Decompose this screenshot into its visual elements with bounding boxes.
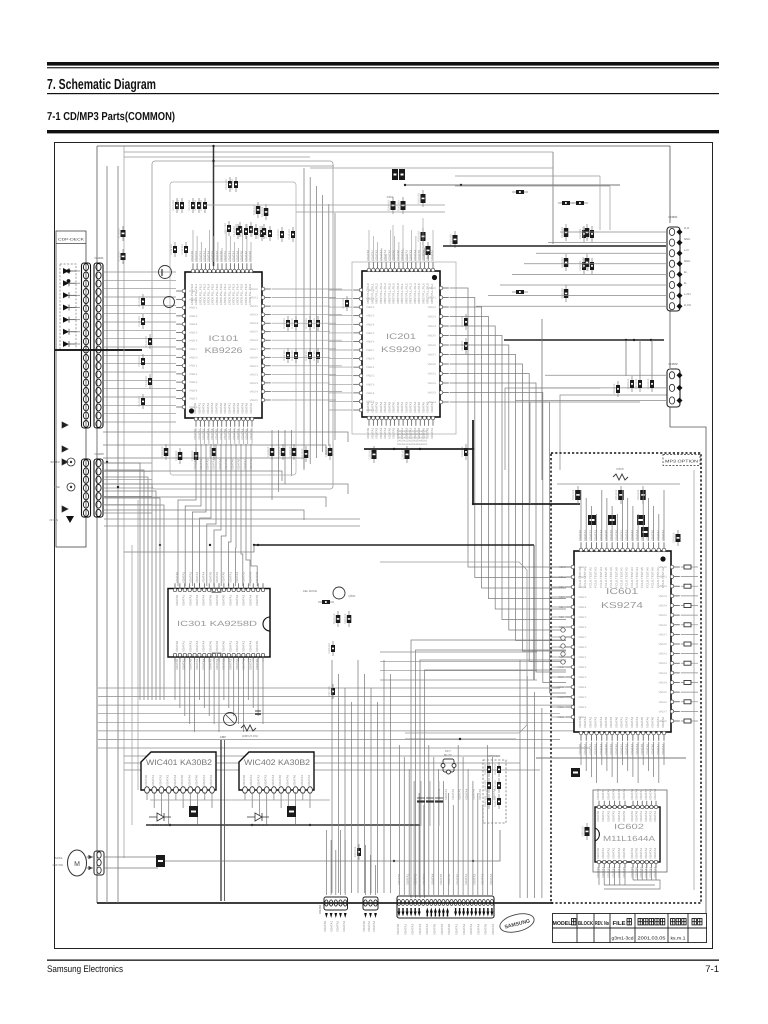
wire mid net 0 (380, 651, 537, 653)
wire bus inter-section verticals (272, 168, 335, 500)
wire IC201 top 7 (394, 236, 396, 261)
svg-text:MP3 KEY: MP3 KEY (487, 754, 500, 758)
resistor R115 (291, 348, 298, 363)
svg-text:R114103: R114103 (283, 350, 286, 361)
svg-text:R613103: R613103 (582, 257, 585, 268)
svg-text:KS9274: KS9274 (601, 600, 643, 610)
capacitor C650 (572, 486, 581, 504)
svg-text:XDATA0: XDATA0 (175, 571, 179, 583)
svg-text:VREF2: VREF2 (189, 373, 198, 376)
svg-text:C122103: C122103 (145, 336, 148, 347)
svg-text:XDATA4: XDATA4 (271, 774, 275, 786)
memory IC602 M11L1644A body (595, 807, 660, 862)
wire IC201 top 16 (432, 230, 434, 261)
svg-text:X201: X201 (386, 195, 393, 199)
wire CN602 pin 1 (545, 374, 667, 376)
svg-text:CN602: CN602 (668, 362, 678, 366)
wire IC101 top pin 11 (233, 242, 235, 262)
svg-text:VREF4: VREF4 (250, 322, 259, 325)
capacitor C330 (616, 581, 624, 597)
svg-text:XDATA0: XDATA0 (175, 640, 179, 652)
svg-text:XDATA4: XDATA4 (617, 866, 621, 878)
wire power rail into MP3 (473, 503, 580, 505)
svg-text:XDATA5: XDATA5 (208, 640, 212, 652)
svg-text:VREF4: VREF4 (189, 389, 198, 392)
wire bottom power bus (97, 902, 553, 904)
capacitor C107 (224, 221, 231, 236)
svg-text:XDATA3: XDATA3 (195, 594, 199, 606)
svg-text:XDATA0: XDATA0 (614, 743, 618, 755)
svg-text:C100103: C100103 (172, 200, 175, 211)
svg-text:C230103: C230103 (369, 449, 372, 460)
wire deck pin 1 (76, 270, 80, 272)
svg-text:XDATA2: XDATA2 (606, 788, 610, 800)
svg-text:VREF4: VREF4 (578, 686, 587, 689)
pins IC601 top (579, 542, 666, 552)
svg-text:VREF5: VREF5 (428, 335, 437, 338)
wire IC602 gnd (604, 884, 655, 886)
wire IC201 top 4 (381, 248, 383, 261)
wire bus left crossing (103, 432, 348, 520)
svg-text:XDATA1: XDATA1 (464, 873, 468, 885)
wire IC601 left pin 1 (551, 566, 564, 568)
capacitor C132 (191, 448, 199, 464)
wire bus center risers (332, 660, 542, 898)
wire lower net 1 (124, 762, 520, 764)
svg-text:C124103: C124103 (145, 376, 148, 387)
capacitor C210 (342, 296, 349, 311)
capacitor C231 (402, 446, 410, 463)
svg-text:XDATA5: XDATA5 (255, 640, 259, 652)
svg-text:F.CLK.TEST.A0: F.CLK.TEST.A0 (614, 567, 618, 588)
capacitor C137 (301, 446, 309, 462)
capacitor C100 (172, 198, 179, 213)
svg-text:XDATA0: XDATA0 (596, 866, 600, 878)
pin labels IC601 bottom inside (578, 716, 665, 728)
svg-text:VREF3: VREF3 (428, 316, 437, 319)
svg-text:LINE: LINE (54, 485, 60, 489)
resistor R611 (561, 254, 569, 271)
svg-text:C222103: C222103 (461, 446, 464, 457)
wire WIC net (150, 799, 330, 801)
svg-text:VREF5: VREF5 (578, 696, 587, 699)
svg-text:XDATA2: XDATA2 (606, 810, 610, 822)
svg-text:Samsung Electronics: Samsung Electronics (47, 964, 123, 975)
svg-text:L-O: L-O (684, 248, 689, 252)
svg-text:XDATA6: XDATA6 (215, 658, 219, 670)
svg-text:R-O: R-O (684, 226, 690, 230)
capacitor C630 (627, 376, 634, 392)
svg-text:XDATA4: XDATA4 (653, 866, 657, 878)
jumper block J63 (641, 527, 649, 537)
op-amp WIC402 body (239, 752, 314, 790)
svg-text:XDATA4: XDATA4 (617, 810, 621, 822)
svg-text:VREF5: VREF5 (659, 691, 668, 694)
pins IC201 bottom (367, 416, 435, 426)
svg-text:XDATA1: XDATA1 (430, 249, 434, 261)
svg-text:XDATA3: XDATA3 (612, 847, 616, 859)
svg-text:XDATA3: XDATA3 (166, 774, 170, 786)
capacitor C124 (145, 374, 152, 389)
svg-text:XDATA3: XDATA3 (594, 716, 598, 728)
wire IC201 top 2 (372, 236, 374, 261)
test point P402 (67, 483, 75, 491)
wire xtal (402, 225, 404, 260)
svg-text:XDATA1: XDATA1 (639, 810, 643, 822)
svg-text:XDATA5: XDATA5 (439, 873, 443, 885)
wire rail B (254, 544, 534, 546)
svg-text:C307103: C307103 (328, 686, 331, 697)
pins WIC402 (243, 787, 313, 794)
wire inner frame right lower (670, 407, 706, 913)
transistor Q102 (164, 297, 175, 308)
capacitor C633 (613, 381, 620, 397)
svg-text:XDATA4: XDATA4 (617, 788, 621, 800)
svg-text:XDATA6: XDATA6 (609, 529, 613, 541)
svg-text:VREF3: VREF3 (428, 392, 437, 395)
svg-text:VREF6: VREF6 (428, 344, 437, 347)
capacitor C106 (231, 177, 238, 192)
labels CN302 nets (397, 873, 493, 885)
wire IC101 right pin 6 (272, 331, 330, 333)
capacitor C114 (170, 242, 177, 257)
svg-text:XDATA6: XDATA6 (491, 923, 495, 935)
pin labels IC602 top inside (596, 810, 657, 822)
svg-text:C114103: C114103 (170, 244, 173, 255)
title cell FILE myeong (627, 919, 631, 925)
capacitor C652 (637, 486, 646, 504)
svg-text:XDATA1: XDATA1 (367, 920, 371, 932)
diode D402 1N4148 (247, 813, 269, 821)
svg-text:VREF7: VREF7 (250, 348, 259, 351)
svg-text:C112103: C112103 (277, 229, 280, 240)
capacitor C651 (615, 486, 624, 504)
svg-text:C115103: C115103 (181, 244, 184, 255)
wire IC101 bottom pin 13 (247, 428, 249, 444)
svg-text:VREF0: VREF0 (428, 287, 437, 290)
svg-text:XDATA4: XDATA4 (173, 774, 177, 786)
wire xtal (392, 225, 394, 260)
junction (633, 339, 635, 341)
svg-text:XDATA5: XDATA5 (622, 810, 626, 822)
wire SPS net (104, 518, 360, 520)
svg-text:R205103: R205103 (450, 234, 453, 245)
wire IC201 left pin 12 (329, 383, 352, 385)
svg-text:XDATA1: XDATA1 (300, 774, 304, 786)
diode array deck pickup (60, 264, 76, 350)
svg-text:XDATA5: XDATA5 (622, 866, 626, 878)
svg-text:XDATA1: XDATA1 (656, 743, 660, 755)
svg-text:7. Schematic Diagram: 7. Schematic Diagram (47, 77, 156, 93)
svg-text:XDATA0: XDATA0 (456, 873, 460, 885)
samsung logo stamp (498, 911, 536, 936)
svg-text:XDATA0: XDATA0 (447, 923, 451, 935)
wire IC101 bottom pin 14 (251, 428, 253, 444)
svg-text:VREF1: VREF1 (366, 298, 375, 301)
svg-text:VREF4: VREF4 (578, 606, 587, 609)
svg-text:VREF5: VREF5 (250, 331, 259, 334)
pins IC201 right (439, 286, 449, 404)
wire CN102 pin 12 (103, 363, 176, 365)
svg-text:C137103: C137103 (301, 448, 304, 459)
svg-text:RA42103: RA42103 (484, 796, 487, 807)
capacitor C101 (177, 198, 184, 213)
zener ZD301 (333, 611, 341, 627)
svg-text:GND: GND (684, 259, 690, 263)
wire CN102 pin 1 (103, 271, 176, 273)
capacitor C301 electrolytic (224, 713, 237, 726)
svg-text:VREF0: VREF0 (250, 288, 259, 291)
wire CN601 pin 5 (512, 273, 667, 275)
wire mid net 1 (380, 660, 537, 662)
svg-text:XDATA0: XDATA0 (596, 810, 600, 822)
wire IC101 top pin 2 (196, 236, 198, 262)
svg-text:SP/MIC: SP/MIC (50, 460, 60, 464)
pin labels IC101 bottom inside (193, 402, 253, 414)
svg-text:F.CLK.TEST.A3: F.CLK.TEST.A3 (594, 567, 598, 588)
svg-text:VREF1: VREF1 (250, 297, 259, 300)
svg-text:VREF5: VREF5 (189, 331, 198, 334)
svg-text:XDATA0: XDATA0 (614, 529, 618, 541)
capacitor C123 (138, 354, 145, 369)
svg-text:RA42103: RA42103 (494, 796, 497, 807)
svg-text:VREF0: VREF0 (659, 566, 668, 569)
svg-text:XDATA2: XDATA2 (188, 658, 192, 670)
wire cap stub 1 (625, 340, 627, 376)
wire mid net low (405, 738, 516, 740)
op-amp IC201 KS9290 body (362, 271, 440, 417)
svg-text:VREF6: VREF6 (659, 701, 668, 704)
wire motor + (87, 856, 95, 858)
wire motor feed 1 (104, 856, 158, 858)
capacitor C112 (277, 227, 284, 242)
svg-text:VREF5: VREF5 (366, 400, 375, 403)
svg-text:XDATA0: XDATA0 (651, 529, 655, 541)
wire power rail A (364, 448, 473, 450)
svg-text:JP10103: JP10103 (118, 228, 121, 239)
svg-text:XDATA5: XDATA5 (208, 571, 212, 583)
resistor RA420 (484, 794, 491, 809)
wire IC101 top pin 3 (200, 242, 202, 262)
pin labels IC601 top inside (578, 567, 665, 588)
svg-text:VREF6: VREF6 (189, 406, 198, 409)
resistor network MP3 KEY box (483, 760, 506, 823)
svg-text:VREF2: VREF2 (578, 586, 587, 589)
svg-text:VREF4: VREF4 (659, 605, 668, 608)
junction (106, 461, 108, 463)
wire top right drop (552, 152, 554, 244)
svg-text:C660103: C660103 (582, 826, 585, 837)
wire IC201 top 15 (428, 254, 430, 261)
svg-text:C631103: C631103 (635, 378, 638, 389)
svg-text:XDATA1: XDATA1 (444, 788, 448, 800)
wire top net 1 (310, 167, 553, 169)
svg-text:XDATA6: XDATA6 (630, 847, 634, 859)
svg-text:VREF6: VREF6 (366, 340, 375, 343)
resistor RA401 (494, 762, 501, 777)
capacitor C138 (325, 444, 333, 460)
svg-text:R100103: R100103 (253, 204, 256, 215)
capacitor C122 (145, 334, 152, 349)
svg-text:VREF5: VREF5 (659, 614, 668, 617)
capacitor C105 (225, 177, 232, 192)
wire IC101 top pin 14 (246, 236, 248, 262)
svg-text:XDATA5: XDATA5 (484, 923, 488, 935)
svg-text:XDATA4: XDATA4 (431, 873, 435, 885)
capacitor C632 (647, 376, 654, 392)
resistor R204 (423, 242, 431, 259)
wire bus IC601 bottom (581, 742, 664, 783)
wire IC101 top pin 9 (225, 230, 227, 262)
svg-text:C125103: C125103 (138, 396, 141, 407)
capacitor C131 (175, 448, 183, 464)
wire IC201 left pin 7 (329, 340, 352, 342)
svg-text:XDATA2: XDATA2 (472, 873, 476, 885)
svg-text:C141103: C141103 (241, 226, 244, 237)
wire AMP rail 1 (220, 740, 222, 901)
wire IC602 net (604, 880, 660, 889)
svg-text:XDATA0: XDATA0 (614, 716, 618, 728)
pins WIC401 (145, 787, 215, 794)
svg-text:VREF3: VREF3 (366, 315, 375, 318)
capacitor C402 (287, 806, 296, 817)
svg-text:XDATA3: XDATA3 (212, 458, 216, 470)
svg-text:XDATA1: XDATA1 (601, 866, 605, 878)
wire CN102 pin 4 (103, 296, 176, 298)
svg-text:XDATA3: XDATA3 (242, 571, 246, 583)
svg-text:XDATA6: XDATA6 (215, 571, 219, 583)
test point P401 (67, 458, 75, 466)
resistor R110 (283, 316, 290, 331)
svg-text:CHT-N: CHT-N (49, 518, 58, 522)
wire IC201 top 9 (402, 248, 404, 261)
svg-text:VREF1: VREF1 (428, 297, 437, 300)
svg-text:XDATA6: XDATA6 (630, 810, 634, 822)
capacitor C220 (461, 314, 468, 330)
svg-text:F.CLK.TEST.A2: F.CLK.TEST.A2 (625, 567, 629, 588)
connector CN602 (667, 369, 683, 407)
capacitor C109 (246, 222, 253, 237)
title cell choejong date (638, 919, 665, 925)
svg-text:M11L1644A: M11L1644A (603, 834, 655, 843)
pin labels IC301 bottom (175, 658, 259, 670)
wire deck pin 7 (76, 343, 80, 345)
svg-text:XDATA2: XDATA2 (307, 774, 311, 786)
svg-text:R117103: R117103 (313, 350, 316, 361)
svg-text:C231103: C231103 (402, 449, 405, 460)
capacitor C133 (209, 444, 217, 460)
svg-text:XDATA1: XDATA1 (228, 594, 232, 606)
svg-text:XDATA1: XDATA1 (620, 743, 624, 755)
pins IC101 left (176, 289, 186, 409)
pin labels IC101 right inside (250, 288, 259, 402)
svg-text:XDATA0: XDATA0 (293, 774, 297, 786)
pin labels IC602 bottom (596, 866, 657, 878)
wire IC601 left pin 2 (551, 576, 564, 578)
wire CN102 pin 10 (103, 346, 176, 348)
resistor R613 (582, 254, 590, 271)
svg-text:XDATA1: XDATA1 (620, 716, 624, 728)
svg-text:XDATA0: XDATA0 (578, 743, 582, 755)
svg-text:C651103: C651103 (615, 489, 618, 500)
junction (650, 339, 652, 341)
svg-text:XDATA6: XDATA6 (249, 402, 253, 414)
svg-text:VREF1: VREF1 (428, 373, 437, 376)
capacitor C660 (582, 823, 590, 840)
junction (106, 349, 108, 351)
wire IC101 top pin 8 (221, 248, 223, 262)
svg-text:XDATA1: XDATA1 (403, 923, 407, 935)
capacitor C305 (344, 611, 352, 627)
wire IC101 bottom pin 1 (195, 428, 197, 444)
svg-text:XDATA0: XDATA0 (596, 847, 600, 859)
svg-text:C632103: C632103 (647, 378, 650, 389)
svg-text:XDATA6: XDATA6 (478, 788, 482, 800)
svg-text:XDATA2: XDATA2 (414, 873, 418, 885)
svg-text:VREF1: VREF1 (659, 653, 668, 656)
svg-text:CN601: CN601 (668, 215, 678, 219)
junction (393, 860, 395, 862)
svg-text:XDATA6: XDATA6 (285, 774, 289, 786)
svg-text:VREF0: VREF0 (189, 290, 198, 293)
wire IC201 top 11 (411, 230, 413, 261)
svg-text:XDATA5: XDATA5 (471, 788, 475, 800)
wire IC101 right pin 11 (272, 373, 336, 375)
resistor R202 (418, 190, 426, 207)
title block (552, 913, 707, 943)
svg-text:XDATA3: XDATA3 (594, 743, 598, 755)
wire top net 3 (455, 185, 610, 187)
svg-text:XDATA0: XDATA0 (651, 743, 655, 755)
wire SLS net (104, 525, 360, 527)
svg-text:VREF6: VREF6 (189, 340, 198, 343)
svg-text:C654103: C654103 (673, 532, 676, 543)
wire IC601 left pin 3 (551, 586, 564, 588)
junction (209, 544, 211, 546)
svg-text:VREF1: VREF1 (578, 576, 587, 579)
connector CN102 (94, 263, 103, 428)
boundary MP3 OPTION dashed box (551, 453, 701, 903)
pins IC601 left (565, 565, 575, 719)
photo diode deck dot 1 (67, 269, 71, 273)
svg-text:R650: R650 (616, 467, 624, 471)
capacitor C412 electrolytic (435, 781, 443, 826)
svg-text:XDATA6: XDATA6 (609, 743, 613, 755)
svg-text:C121103: C121103 (138, 316, 141, 327)
wire IC601 left pin 14 (551, 696, 564, 698)
pin arrows CN302 (398, 908, 494, 917)
svg-text:R410103: R410103 (354, 846, 357, 857)
svg-text:XDATA4: XDATA4 (599, 743, 603, 755)
pin labels IC101 top inside (190, 284, 252, 305)
wire IC601 left pin 12 (551, 676, 564, 678)
svg-text:VREF0: VREF0 (578, 566, 587, 569)
svg-text:VREF4: VREF4 (428, 401, 437, 404)
capacitor C311 (255, 711, 261, 714)
svg-text:CN303: CN303 (318, 905, 322, 914)
connector CN103 (82, 459, 91, 517)
wire IC601 left pin 8 (551, 636, 564, 638)
svg-text:R203103: R203103 (418, 231, 421, 242)
wire VCC drop (213, 146, 215, 266)
pin labels WIC402 (242, 774, 311, 786)
pin labels IC201 bottom inside (366, 401, 434, 413)
transistor Q101 (159, 266, 172, 279)
photo diode deck dot 2 (67, 279, 71, 283)
svg-text:XDATA4: XDATA4 (248, 571, 252, 583)
wire IC201 left pin 9 (329, 358, 352, 360)
svg-text:VREF5: VREF5 (250, 399, 259, 402)
